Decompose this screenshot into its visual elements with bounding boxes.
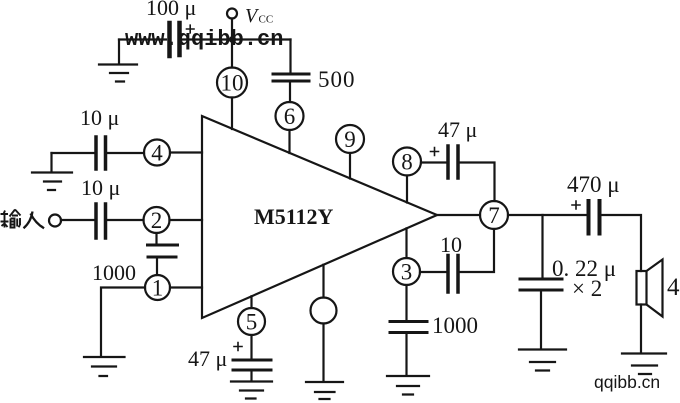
wire pin 9 to triangle [349, 153, 351, 179]
svg-text:2: 2 [151, 208, 163, 233]
svg-text:× 2: × 2 [572, 276, 602, 301]
pin 3 circle [393, 258, 420, 285]
speaker LS1 [637, 260, 663, 317]
wire pin 8 to C7 [421, 161, 446, 163]
ground G5 [306, 382, 343, 399]
label 0.22u [552, 256, 616, 281]
wire triangle to pin 5 [250, 296, 252, 308]
pin 3 number [401, 260, 413, 285]
label input Chinese ru [24, 212, 45, 229]
capacitor C8 10 plates [448, 256, 458, 293]
wire pin 3 down to C9 [405, 285, 407, 320]
wire output node down to C10 [541, 215, 543, 277]
label 10 right [440, 232, 462, 257]
svg-text:10 μ: 10 μ [80, 105, 119, 130]
wire pin 2 down to C5 [155, 233, 157, 244]
pin 5 number [246, 310, 258, 335]
wire pin 10 to triangle [231, 98, 233, 130]
capacitor C11 470u polarity plus [572, 201, 580, 209]
label x2 [572, 276, 602, 301]
watermark bottom qqibb.cn [594, 372, 660, 392]
wire C11 to speaker [602, 215, 642, 271]
pin 6 circle [276, 102, 304, 130]
wire triangle to pin 3 [405, 228, 407, 258]
wire pin 1 to triangle [170, 286, 202, 288]
wire C6 to ground G4 [250, 372, 252, 381]
pin 4 circle [144, 140, 170, 166]
ground G4 [231, 382, 272, 399]
wire C9 to ground G6 [405, 334, 407, 375]
junction dot Vcc node [229, 36, 236, 43]
svg-text:10 μ: 10 μ [81, 175, 120, 200]
wire 10u input cap row pin4 left [52, 152, 95, 154]
label 10u lower [81, 175, 120, 200]
svg-text:10: 10 [221, 71, 244, 96]
svg-text:7: 7 [488, 203, 500, 228]
wire C7 to pin 7 node [460, 163, 495, 202]
svg-text:6: 6 [284, 104, 296, 129]
svg-text:3: 3 [401, 260, 413, 285]
wire pin 2 to triangle [170, 219, 203, 221]
wire pin 6 to triangle [288, 130, 290, 153]
svg-text:47 μ: 47 μ [188, 346, 227, 371]
input terminal circle [49, 215, 61, 227]
capacitor C9 1000 plates [390, 322, 427, 333]
capacitor C11 470u plates [589, 201, 600, 234]
svg-text:www.qqibb.cn: www.qqibb.cn [125, 27, 283, 52]
label input Chinese shu [1, 210, 21, 228]
wire pin 1 left and down [101, 288, 145, 356]
wire C10 to ground G7 [540, 292, 542, 348]
wire pin 3 to C8 [420, 271, 446, 273]
pin 7 circle [480, 201, 508, 229]
ground G3 [84, 357, 125, 376]
pin 8 number [401, 150, 413, 175]
svg-text:10: 10 [440, 232, 462, 257]
ground G1 top-left [99, 65, 137, 82]
ground G8 [622, 354, 666, 375]
wire triangle to NC circle [322, 265, 324, 298]
label 47u bottom [188, 346, 227, 371]
wire triangle apex to pin 7 [437, 214, 480, 216]
svg-text:5: 5 [246, 310, 258, 335]
svg-text:M5112Y: M5112Y [254, 204, 334, 229]
label 10u upper [80, 105, 119, 130]
label M5112Y [254, 204, 334, 229]
capacitor C2 500 plates [273, 74, 309, 81]
wire ground riser top-left [118, 40, 120, 64]
svg-text:4: 4 [667, 274, 680, 301]
wire riser to ground G2 [50, 153, 52, 171]
ground G6 [387, 376, 429, 395]
pin 10 number [221, 71, 244, 96]
pin 10 circle [217, 68, 247, 98]
ground G2 [32, 173, 72, 191]
label 470u [567, 172, 620, 197]
pin 8 circle [393, 148, 421, 176]
wire input to C4 [61, 219, 94, 221]
wire 500 branch down [289, 40, 291, 73]
wire C2 to pin 6 [289, 83, 291, 103]
svg-text:8: 8 [401, 150, 413, 175]
label 500 [318, 67, 356, 92]
capacitor C1 100u plates [170, 23, 180, 56]
label 47u right [438, 117, 477, 142]
capacitor C1 polarity plus [187, 25, 195, 33]
capacitor C4 10u plates [96, 204, 106, 238]
svg-text:4: 4 [151, 141, 163, 166]
wire Vcc to pin 10 [231, 19, 233, 68]
svg-text:1: 1 [152, 276, 164, 301]
svg-text:500: 500 [318, 67, 356, 92]
Vcc terminal circle [227, 9, 237, 19]
wire speaker to ground G8 [640, 305, 642, 352]
op-amp U1 M5112Y triangle [202, 116, 437, 318]
wire top rail left segment [119, 38, 166, 40]
pin 1 number [152, 276, 164, 301]
wire pin 5 to C6 [250, 335, 252, 359]
watermark top www.qqibb.cn [125, 27, 283, 52]
pin 4 number [151, 141, 163, 166]
wire C4 to pin 2 [108, 219, 144, 221]
pin 6 number [284, 104, 296, 129]
wire top rail right segment [183, 38, 291, 40]
svg-text:100 μ: 100 μ [146, 0, 196, 20]
label 4 ohm [667, 274, 680, 301]
svg-text:47 μ: 47 μ [438, 117, 477, 142]
capacitor C6 47u plates [233, 360, 271, 370]
pin 1 circle [145, 275, 170, 300]
svg-text:9: 9 [344, 127, 356, 152]
label Vcc [245, 5, 273, 27]
wire C5 to pin 1 [156, 259, 158, 276]
capacitor C6 47u polarity plus [234, 343, 242, 351]
pin 5 circle [238, 308, 265, 335]
label 1000 right [432, 313, 478, 338]
capacitor C5 1000 plates [148, 245, 178, 257]
pin 2 number [151, 208, 163, 233]
label 100u [146, 0, 196, 20]
unnumbered pin circle [311, 298, 337, 324]
wire C8 to pin 7 node [460, 229, 494, 272]
capacitor C7 47u plates [448, 146, 458, 178]
svg-text:CC: CC [259, 14, 274, 26]
svg-text:qqibb.cn: qqibb.cn [594, 372, 660, 392]
pin 9 number [344, 127, 356, 152]
pin 9 circle [336, 125, 364, 153]
wire pin 4 to triangle [170, 151, 202, 153]
wire NC circle to ground G5 [322, 324, 324, 381]
wire pin 8 to triangle [406, 176, 408, 203]
pin 2 circle [144, 207, 170, 233]
wire C3 to pin 4 [108, 152, 145, 154]
capacitor C3 10u plates [96, 137, 106, 169]
capacitor C7 47u polarity plus [431, 148, 439, 156]
svg-text:1000: 1000 [432, 313, 478, 338]
pin 7 number [488, 203, 500, 228]
svg-text:470 μ: 470 μ [567, 172, 620, 197]
label 1000 left [92, 260, 136, 285]
wire pin 7 to output node [508, 214, 586, 216]
ground G7 [519, 350, 566, 371]
svg-text:1000: 1000 [92, 260, 136, 285]
capacitor C10 0.22u plates [520, 279, 562, 290]
